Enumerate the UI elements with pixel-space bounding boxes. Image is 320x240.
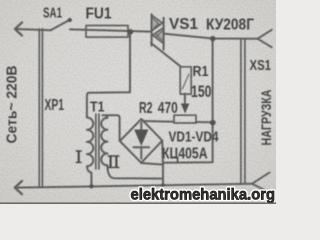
svg-text:elektromehanika.org: elektromehanika.org (131, 187, 276, 204)
